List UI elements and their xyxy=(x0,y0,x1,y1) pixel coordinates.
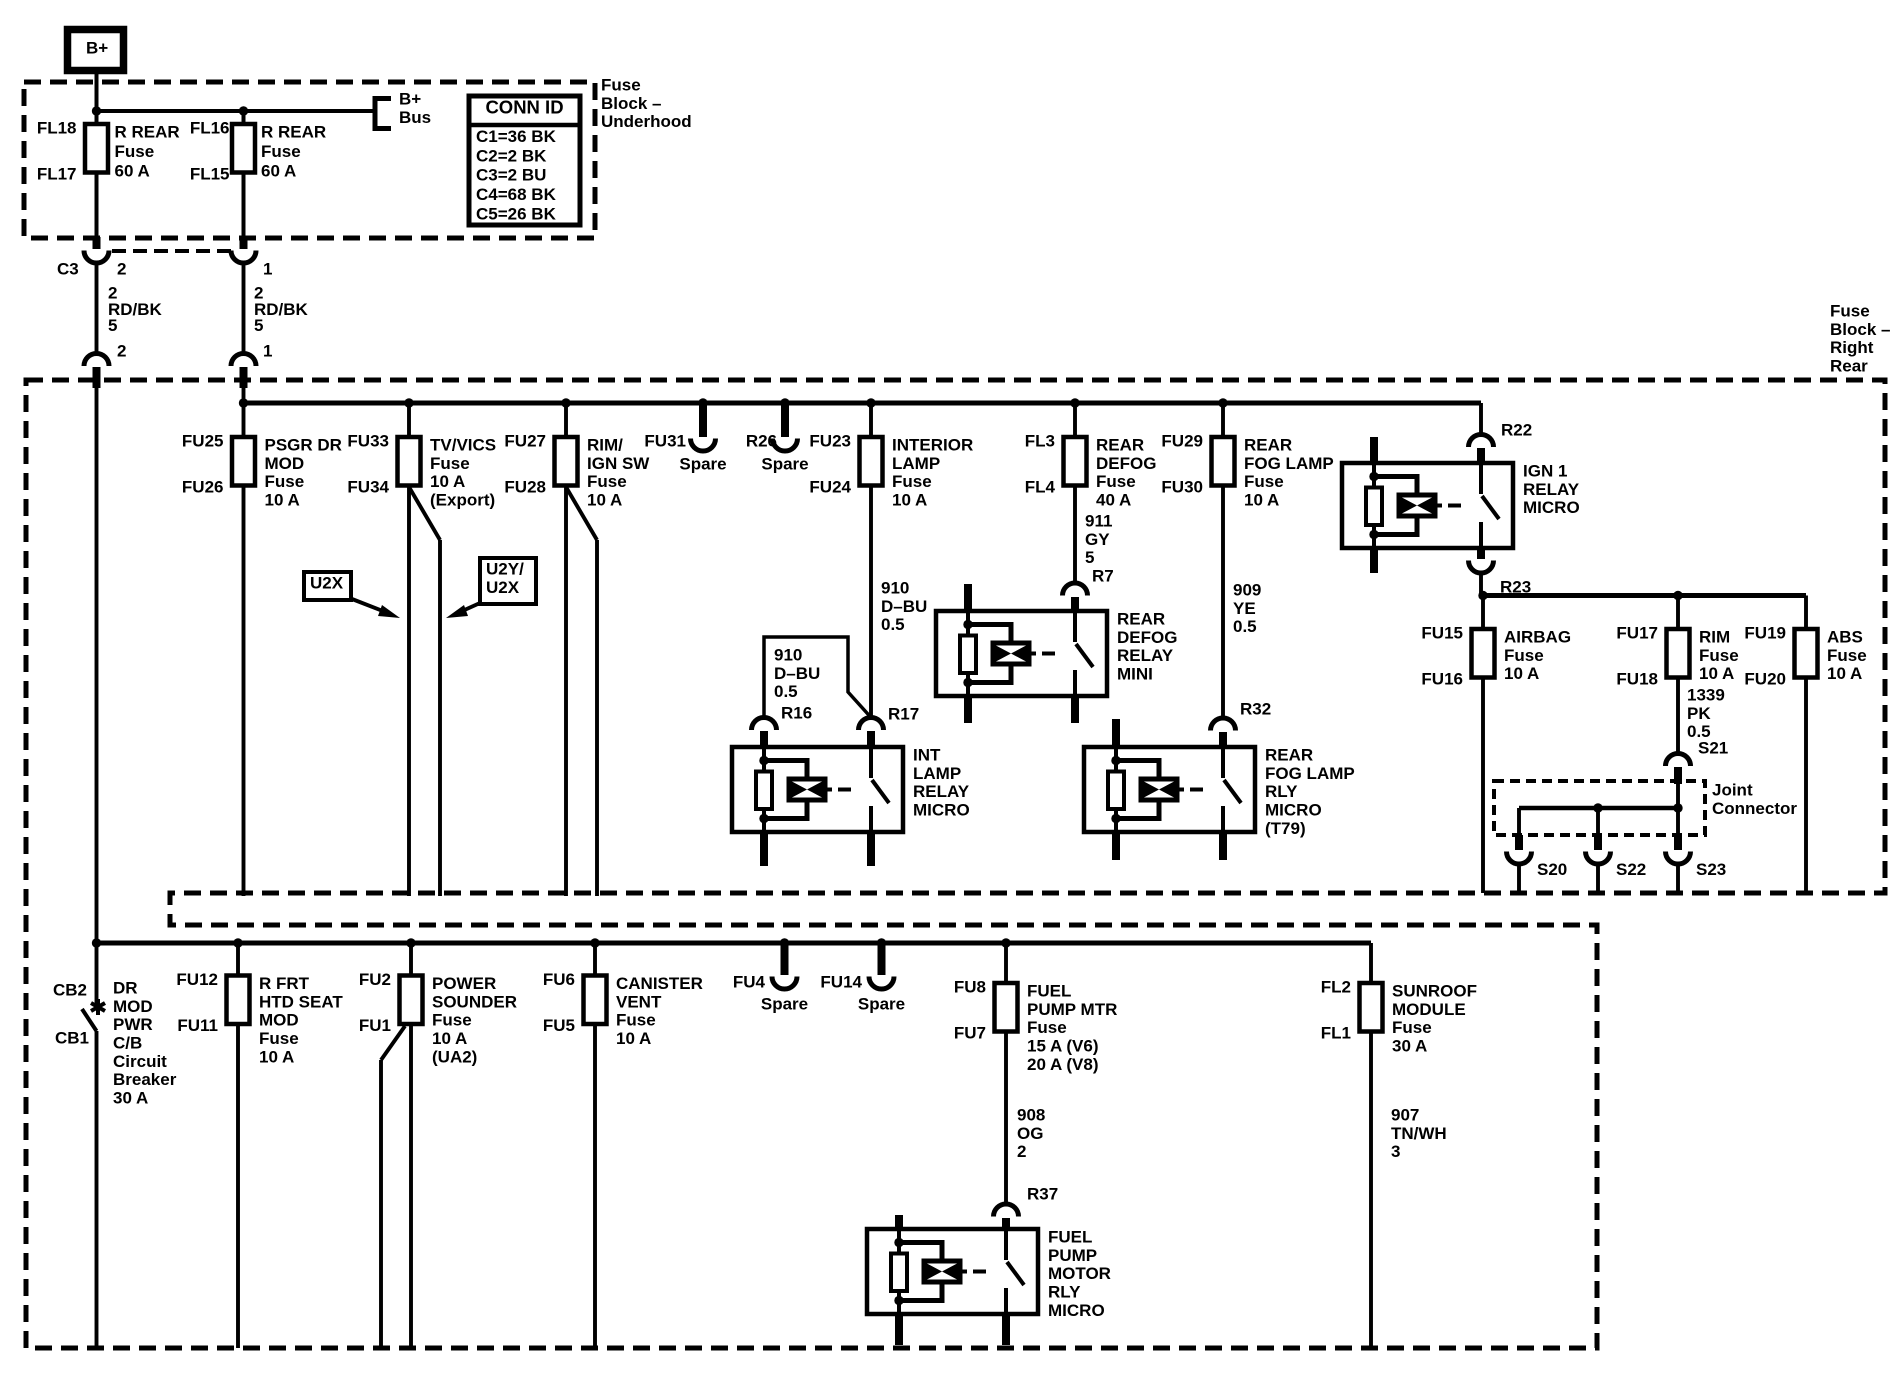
joint connector dashed box xyxy=(1494,781,1705,835)
wire 2 RD/BK from C3 pin 1 xyxy=(242,262,246,353)
wire bus to FU23 fuse xyxy=(869,403,873,437)
pin stub int lamp switch bottom xyxy=(867,832,875,866)
svg-text:Breaker: Breaker xyxy=(113,1070,177,1089)
wire bus to FU2 xyxy=(409,943,413,976)
wire from C3 pin 2 down left side xyxy=(95,385,99,943)
svg-text:(UA2): (UA2) xyxy=(432,1047,477,1066)
spare cavity FU31 xyxy=(699,403,707,437)
svg-text:CB2: CB2 xyxy=(53,981,87,1000)
top feed bus of fuse block right rear xyxy=(244,401,1482,406)
svg-text:FU25: FU25 xyxy=(182,432,224,451)
svg-text:FL15: FL15 xyxy=(190,165,230,184)
spare cavity FU4 xyxy=(781,943,789,975)
svg-text:REAR: REAR xyxy=(1244,436,1292,455)
wire bus to FL3 fuse xyxy=(1073,403,1077,437)
fuse FL3/FL4 REAR DEFOG 40 A xyxy=(1064,437,1087,486)
svg-text:C1=36 BK: C1=36 BK xyxy=(476,127,557,146)
svg-text:C4=68 BK: C4=68 BK xyxy=(476,185,557,204)
connector C3 pin 2 male stub xyxy=(93,237,101,249)
wire FU1 output branch xyxy=(381,1026,405,1060)
svg-text:D–BU: D–BU xyxy=(774,664,820,683)
junction node at FL16 tap xyxy=(239,106,248,115)
B+ power feed box xyxy=(68,30,124,71)
svg-text:FU26: FU26 xyxy=(182,478,224,497)
fuse FU12/FU11 R FRT HTD SEAT MOD 10 A xyxy=(227,976,250,1025)
fuse block right rear dashed outline xyxy=(26,380,1885,1348)
svg-text:INT: INT xyxy=(913,746,941,765)
CONN ID table xyxy=(469,96,580,225)
svg-text:Fuse: Fuse xyxy=(1244,472,1284,491)
svg-text:Fuse: Fuse xyxy=(1392,1018,1432,1037)
relay REAR FOG LAMP RLY MICRO xyxy=(1084,747,1255,832)
svg-text:5: 5 xyxy=(108,316,117,335)
wire FU1 output straight xyxy=(409,1024,413,1348)
fuse FU8/FU7 FUEL PUMP MTR xyxy=(995,983,1018,1032)
relay REAR DEFOG RELAY MINI xyxy=(936,611,1107,696)
svg-text:1: 1 xyxy=(263,342,272,361)
node bus CB tap xyxy=(92,938,101,947)
svg-text:Joint: Joint xyxy=(1712,781,1753,800)
wire B+ to FL18 fuse xyxy=(95,71,99,124)
svg-text:FU19: FU19 xyxy=(1744,624,1786,643)
svg-text:RLY: RLY xyxy=(1265,782,1298,801)
svg-text:REAR: REAR xyxy=(1265,746,1313,765)
pin stub fog switch bottom xyxy=(1219,832,1227,860)
svg-text:Fuse: Fuse xyxy=(259,1029,299,1048)
svg-text:MICRO: MICRO xyxy=(1523,498,1580,517)
svg-text:FU20: FU20 xyxy=(1744,670,1786,689)
pin stub defog coil top xyxy=(964,584,972,611)
svg-text:FUEL: FUEL xyxy=(1048,1228,1092,1247)
svg-text:0.5: 0.5 xyxy=(881,615,905,634)
svg-text:S22: S22 xyxy=(1616,860,1646,879)
wire 908 OG to R37 xyxy=(1004,1032,1008,1205)
arrow U2Y/U2X to wire xyxy=(460,603,480,612)
svg-text:10 A: 10 A xyxy=(259,1047,294,1066)
svg-text:FU5: FU5 xyxy=(543,1016,575,1035)
svg-text:0.5: 0.5 xyxy=(774,682,798,701)
svg-text:R26: R26 xyxy=(746,432,777,451)
svg-text:1339: 1339 xyxy=(1687,686,1725,705)
svg-text:S23: S23 xyxy=(1696,860,1726,879)
B+ feed bus wire xyxy=(97,109,376,113)
wire bus to FU8 xyxy=(1004,943,1008,983)
wire FU16 output xyxy=(1481,678,1485,894)
svg-text:R7: R7 xyxy=(1092,567,1114,586)
svg-text:U2Y/: U2Y/ xyxy=(486,560,524,579)
svg-text:5: 5 xyxy=(254,316,263,335)
svg-text:Fuse: Fuse xyxy=(265,472,305,491)
svg-text:Bus: Bus xyxy=(399,108,431,127)
relay IGN 1 RELAY MICRO xyxy=(1342,463,1513,548)
svg-text:60 A: 60 A xyxy=(115,162,150,181)
pin stub fuel pump coil bottom xyxy=(895,1314,903,1345)
svg-text:B+: B+ xyxy=(399,90,421,109)
pin stub int lamp coil bottom xyxy=(760,832,768,866)
fuse FU6/FU5 CANISTER VENT 10 A xyxy=(584,976,607,1025)
svg-text:40 A: 40 A xyxy=(1096,491,1131,510)
svg-text:908: 908 xyxy=(1017,1106,1045,1125)
svg-text:Connector: Connector xyxy=(1712,799,1797,818)
svg-text:RIM: RIM xyxy=(1699,628,1730,647)
svg-text:AIRBAG: AIRBAG xyxy=(1504,628,1571,647)
wire 911 GY to relay R7 xyxy=(1073,486,1077,584)
node at bus left end xyxy=(239,398,248,407)
svg-text:3: 3 xyxy=(1391,1142,1400,1161)
wire 1339 PK to S21 xyxy=(1676,678,1680,754)
svg-text:910: 910 xyxy=(881,579,909,598)
svg-text:MOD: MOD xyxy=(259,1011,299,1030)
svg-text:REAR: REAR xyxy=(1096,436,1144,455)
svg-text:RELAY: RELAY xyxy=(1523,480,1580,499)
fuse FU27/FU28 RIM/IGN SW 10 A xyxy=(555,437,578,486)
wire FL16 feed from bus xyxy=(242,111,246,124)
svg-text:Fuse: Fuse xyxy=(432,1011,472,1030)
svg-text:CB1: CB1 xyxy=(55,1029,89,1048)
svg-text:C2=2 BK: C2=2 BK xyxy=(476,146,547,165)
svg-text:FU12: FU12 xyxy=(176,970,218,989)
wire FU20 output xyxy=(1804,678,1808,894)
svg-text:REAR: REAR xyxy=(1117,610,1165,629)
svg-text:TN/WH: TN/WH xyxy=(1391,1124,1447,1143)
svg-text:Spare: Spare xyxy=(858,995,905,1014)
svg-text:D–BU: D–BU xyxy=(881,597,927,616)
svg-text:RIM/: RIM/ xyxy=(587,436,623,455)
svg-text:(Export): (Export) xyxy=(430,491,495,510)
wire branch to R16 xyxy=(764,637,871,718)
svg-text:Block –: Block – xyxy=(601,94,661,113)
svg-text:10 A: 10 A xyxy=(616,1029,651,1048)
svg-text:PSGR DR: PSGR DR xyxy=(265,436,342,455)
joint connector internal bus xyxy=(1676,784,1680,808)
svg-text:Fuse: Fuse xyxy=(1827,646,1867,665)
connector C3 pin 1 male stub xyxy=(240,237,248,249)
svg-text:FU1: FU1 xyxy=(359,1016,391,1035)
svg-text:PUMP MTR: PUMP MTR xyxy=(1027,1000,1117,1019)
wire to FU17 fuse xyxy=(1676,596,1680,630)
svg-text:R REAR: R REAR xyxy=(261,123,326,142)
svg-text:907: 907 xyxy=(1391,1106,1419,1125)
fuse FL16/FL15 R REAR 60 A xyxy=(232,124,255,173)
svg-text:10 A: 10 A xyxy=(587,491,622,510)
pin stub defog coil bottom xyxy=(964,696,972,723)
wire to FU15 fuse xyxy=(1481,596,1485,630)
svg-text:FOG LAMP: FOG LAMP xyxy=(1265,764,1355,783)
svg-text:S20: S20 xyxy=(1537,860,1567,879)
svg-text:C5=26 BK: C5=26 BK xyxy=(476,204,557,223)
svg-text:DEFOG: DEFOG xyxy=(1117,628,1177,647)
svg-text:B+: B+ xyxy=(86,39,108,58)
svg-text:FU4: FU4 xyxy=(733,973,766,992)
fuse FU15/FU16 AIRBAG 10 A xyxy=(1472,629,1495,678)
svg-text:RLY: RLY xyxy=(1048,1283,1081,1302)
fuse FU33/FU34 TV/VICS 10 A Export xyxy=(398,437,421,486)
splice S23 xyxy=(1676,808,1680,836)
svg-text:MICRO: MICRO xyxy=(1265,801,1322,820)
wire FU28 output straight xyxy=(564,486,568,897)
connector C3 pin 2 female cup xyxy=(84,251,109,264)
svg-text:C3=2 BU: C3=2 BU xyxy=(476,166,546,185)
svg-text:SOUNDER: SOUNDER xyxy=(432,992,517,1011)
svg-text:FU7: FU7 xyxy=(954,1024,986,1043)
callout box U2Y/U2X xyxy=(480,558,536,604)
svg-text:20 A (V8): 20 A (V8) xyxy=(1027,1055,1099,1074)
svg-text:10 A: 10 A xyxy=(892,491,927,510)
svg-text:GY: GY xyxy=(1085,530,1110,549)
svg-text:INTERIOR: INTERIOR xyxy=(892,436,973,455)
svg-text:Fuse: Fuse xyxy=(616,1011,656,1030)
wire bus to FU25 fuse xyxy=(242,403,246,437)
svg-text:910: 910 xyxy=(774,646,802,665)
svg-text:DR: DR xyxy=(113,979,138,998)
svg-text:FU34: FU34 xyxy=(347,478,389,497)
svg-text:MODULE: MODULE xyxy=(1392,1000,1466,1019)
svg-text:FL1: FL1 xyxy=(1321,1024,1351,1043)
wire FU34 output branch xyxy=(409,487,440,540)
svg-text:30 A: 30 A xyxy=(113,1088,148,1107)
splice S20 xyxy=(1517,808,1521,836)
svg-text:S21: S21 xyxy=(1698,739,1728,758)
svg-text:YE: YE xyxy=(1233,599,1256,618)
svg-text:FU31: FU31 xyxy=(644,432,686,451)
connector C3 pin 1 female cup xyxy=(231,251,256,264)
junction node at FL18 tap xyxy=(92,106,101,115)
svg-text:Fuse: Fuse xyxy=(1027,1018,1067,1037)
fuse FL18/FL17 R REAR 60 A xyxy=(85,124,108,173)
wire bus to FL2 xyxy=(1369,943,1373,983)
svg-text:2: 2 xyxy=(117,342,126,361)
wire to FU19 fuse xyxy=(1804,596,1808,630)
wire FL15 to C3 xyxy=(242,173,246,239)
wire FU26 output xyxy=(242,486,246,897)
svg-text:Circuit: Circuit xyxy=(113,1052,167,1071)
svg-text:FU23: FU23 xyxy=(809,432,851,451)
svg-text:R16: R16 xyxy=(781,704,812,723)
svg-text:R37: R37 xyxy=(1027,1185,1058,1204)
fuse FU17/FU18 RIM 10 A xyxy=(1667,629,1690,678)
svg-text:FU11: FU11 xyxy=(177,1016,218,1035)
svg-text:ABS: ABS xyxy=(1827,628,1863,647)
svg-text:MOTOR: MOTOR xyxy=(1048,1264,1111,1283)
wire from C3 pin 1 to top bus xyxy=(242,385,246,403)
svg-text:C/B: C/B xyxy=(113,1034,142,1053)
svg-text:MOD: MOD xyxy=(265,454,305,473)
in-line connector into fuse block left wire xyxy=(84,354,109,367)
svg-text:TV/VICS: TV/VICS xyxy=(430,436,496,455)
svg-text:FU18: FU18 xyxy=(1616,670,1658,689)
wire 2 RD/BK from C3 pin 2 xyxy=(95,262,99,353)
C3 connector dashed link line xyxy=(112,249,231,253)
svg-text:FOG LAMP: FOG LAMP xyxy=(1244,454,1334,473)
svg-text:FU29: FU29 xyxy=(1161,432,1203,451)
fuse FU29/FU30 REAR FOG LAMP 10 A xyxy=(1212,437,1235,486)
fuse FU23/FU24 INTERIOR LAMP 10 A xyxy=(860,437,883,486)
fuse block underhood dashed outline xyxy=(24,82,595,238)
wire FL17 to C3 xyxy=(95,173,99,239)
svg-text:OG: OG xyxy=(1017,1124,1043,1143)
svg-text:10 A: 10 A xyxy=(430,472,465,491)
connector R23 xyxy=(1477,548,1485,559)
fuse FL2/FL1 SUNROOF MODULE 30 A xyxy=(1360,983,1383,1032)
svg-text:60 A: 60 A xyxy=(261,162,296,181)
relay FUEL PUMP MOTOR RLY MICRO xyxy=(867,1229,1038,1314)
svg-text:RELAY: RELAY xyxy=(913,782,970,801)
svg-text:Underhood: Underhood xyxy=(601,112,692,131)
wire FU34 output straight xyxy=(407,486,411,897)
svg-text:2: 2 xyxy=(1017,1142,1026,1161)
svg-text:FU2: FU2 xyxy=(359,970,391,989)
svg-text:MINI: MINI xyxy=(1117,665,1153,684)
svg-text:PK: PK xyxy=(1687,704,1711,723)
svg-text:PWR: PWR xyxy=(113,1015,153,1034)
svg-text:IGN SW: IGN SW xyxy=(587,454,650,473)
svg-text:MICRO: MICRO xyxy=(1048,1301,1105,1320)
wire R23 to fuse row xyxy=(1479,573,1483,596)
svg-text:(T79): (T79) xyxy=(1265,819,1306,838)
svg-text:Fuse: Fuse xyxy=(892,472,932,491)
svg-text:R17: R17 xyxy=(888,705,919,724)
fuse FU25/FU26 PSGR DR MOD 10 A xyxy=(232,437,255,486)
svg-text:10 A: 10 A xyxy=(265,491,300,510)
svg-text:U2X: U2X xyxy=(310,574,344,593)
svg-text:MOD: MOD xyxy=(113,997,153,1016)
svg-text:Fuse: Fuse xyxy=(1830,302,1870,321)
svg-text:FL16: FL16 xyxy=(190,119,230,138)
svg-text:U2X: U2X xyxy=(486,578,520,597)
svg-text:FL3: FL3 xyxy=(1025,432,1055,451)
svg-text:Spare: Spare xyxy=(761,995,808,1014)
svg-text:R22: R22 xyxy=(1501,421,1532,440)
wire 909 YE to relay R32 xyxy=(1221,486,1225,719)
svg-text:FU30: FU30 xyxy=(1161,478,1203,497)
svg-text:Fuse: Fuse xyxy=(261,142,301,161)
svg-text:FU8: FU8 xyxy=(954,978,986,997)
svg-text:Spare: Spare xyxy=(679,455,726,474)
svg-text:15 A (V6): 15 A (V6) xyxy=(1027,1037,1099,1056)
wire bus to FU33 fuse xyxy=(407,403,411,437)
pin stub fog coil top xyxy=(1112,719,1120,747)
svg-text:10 A: 10 A xyxy=(432,1029,467,1048)
svg-text:Fuse: Fuse xyxy=(115,142,155,161)
bottom feed bus xyxy=(97,941,1372,946)
svg-text:SUNROOF: SUNROOF xyxy=(1392,982,1477,1001)
svg-text:Spare: Spare xyxy=(761,455,808,474)
svg-text:5: 5 xyxy=(1085,548,1094,567)
svg-text:RELAY: RELAY xyxy=(1117,646,1174,665)
svg-text:0.5: 0.5 xyxy=(1233,617,1257,636)
svg-text:30 A: 30 A xyxy=(1392,1037,1427,1056)
pin stub defog switch bottom xyxy=(1071,696,1079,723)
svg-text:FU14: FU14 xyxy=(820,973,862,992)
svg-text:Block –: Block – xyxy=(1830,320,1890,339)
svg-text:10 A: 10 A xyxy=(1827,664,1862,683)
wire bus to FU27 fuse xyxy=(564,403,568,437)
svg-text:911: 911 xyxy=(1085,512,1112,531)
wire FU28 output branch xyxy=(566,487,597,540)
svg-text:Fuse: Fuse xyxy=(587,472,627,491)
wire FU5 output xyxy=(593,1024,597,1348)
svg-text:1: 1 xyxy=(263,260,272,279)
wire bus to FU12 xyxy=(236,943,240,976)
svg-text:HTD SEAT: HTD SEAT xyxy=(259,992,343,1011)
spare cavity FU14 xyxy=(878,943,886,975)
svg-text:CONN ID: CONN ID xyxy=(485,97,563,118)
callout box U2X xyxy=(304,572,351,600)
svg-text:VENT: VENT xyxy=(616,992,662,1011)
svg-text:LAMP: LAMP xyxy=(913,764,961,783)
svg-text:PUMP: PUMP xyxy=(1048,1246,1097,1265)
svg-text:DEFOG: DEFOG xyxy=(1096,454,1156,473)
svg-text:FU15: FU15 xyxy=(1421,624,1463,643)
svg-text:Right: Right xyxy=(1830,338,1874,357)
wire 910 D-BU to relay R17 xyxy=(869,486,873,718)
svg-text:POWER: POWER xyxy=(432,974,496,993)
svg-text:FL18: FL18 xyxy=(37,119,77,138)
svg-text:FU33: FU33 xyxy=(347,432,389,451)
svg-text:Fuse: Fuse xyxy=(1504,646,1544,665)
svg-text:Fuse: Fuse xyxy=(1096,472,1136,491)
pin stub fuel pump switch bottom xyxy=(1002,1314,1010,1345)
svg-text:10 A: 10 A xyxy=(1504,664,1539,683)
fuse FU2/FU1 POWER SOUNDER 10 A UA2 xyxy=(400,976,423,1025)
svg-text:Fuse: Fuse xyxy=(1699,646,1739,665)
svg-text:FL17: FL17 xyxy=(37,165,77,184)
svg-text:IGN 1: IGN 1 xyxy=(1523,462,1567,481)
svg-text:FUEL: FUEL xyxy=(1027,982,1071,1001)
svg-text:FU17: FU17 xyxy=(1616,624,1658,643)
svg-text:909: 909 xyxy=(1233,581,1261,600)
svg-text:C3: C3 xyxy=(57,260,79,279)
wire 907 TN/WH output xyxy=(1369,1032,1373,1349)
wire bus to FU6 xyxy=(593,943,597,976)
svg-text:FU24: FU24 xyxy=(809,478,851,497)
B+ Bus connector symbol xyxy=(375,99,391,129)
svg-text:MICRO: MICRO xyxy=(913,801,970,820)
svg-text:CANISTER: CANISTER xyxy=(616,974,703,993)
pin stub IGN relay coil top xyxy=(1370,437,1378,463)
svg-text:Rear: Rear xyxy=(1830,357,1868,376)
wire bus to R22 xyxy=(1479,403,1483,435)
svg-text:FU28: FU28 xyxy=(504,478,546,497)
spare cavity R26 xyxy=(781,403,789,437)
net from R23 to AIRBAG RIM ABS fuses xyxy=(1481,593,1806,598)
svg-text:LAMP: LAMP xyxy=(892,454,940,473)
svg-text:FU27: FU27 xyxy=(504,432,546,451)
pin stub fog coil bottom xyxy=(1112,832,1120,860)
svg-text:R REAR: R REAR xyxy=(115,123,180,142)
svg-text:Fuse: Fuse xyxy=(430,454,470,473)
svg-text:R32: R32 xyxy=(1240,700,1271,719)
svg-text:10 A: 10 A xyxy=(1244,491,1279,510)
wire FU11 output xyxy=(236,1024,240,1348)
fuse FU19/FU20 ABS 10 A xyxy=(1795,629,1818,678)
relay INT LAMP RELAY MICRO xyxy=(732,747,903,832)
svg-text:10 A: 10 A xyxy=(1699,664,1734,683)
svg-text:FU16: FU16 xyxy=(1421,670,1463,689)
svg-text:FL4: FL4 xyxy=(1025,478,1056,497)
pin stub IGN relay coil bottom xyxy=(1370,548,1378,573)
svg-text:R FRT: R FRT xyxy=(259,974,310,993)
svg-text:FL2: FL2 xyxy=(1321,978,1351,997)
wire bus to FU29 fuse xyxy=(1221,403,1225,437)
circuit breaker CB2/CB1 DR MOD PWR 30 A xyxy=(95,943,99,1005)
svg-text:2: 2 xyxy=(117,260,126,279)
splice S22 xyxy=(1596,808,1600,836)
pin stub fuel pump coil top xyxy=(895,1215,903,1229)
svg-text:FU6: FU6 xyxy=(543,970,575,989)
in-line connector into fuse block right wire xyxy=(231,354,256,367)
arrow U2X to wire xyxy=(352,599,388,613)
